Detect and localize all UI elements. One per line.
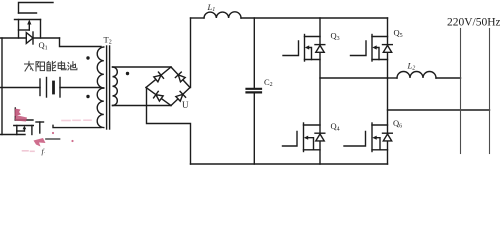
faint pink dashes	[62, 119, 91, 121]
transformer T2 secondary winding	[113, 67, 118, 106]
池	[68, 62, 77, 70]
svg-text:L2: L2	[407, 61, 416, 72]
diode bottom-right (apex to right vertex)	[175, 91, 185, 101]
gray dash mark	[46, 138, 60, 140]
body arrow	[23, 126, 27, 130]
Q2 main wire	[1, 134, 25, 136]
capacitor C2 bottom lead	[253, 94, 255, 164]
light pink dashes bottom	[23, 150, 35, 153]
svg-text:U: U	[182, 100, 189, 110]
diode top-left (apex to top vertex)	[153, 72, 163, 82]
right (drain) lead	[40, 20, 42, 39]
wire bridge mid node A (left leg to right leg)	[320, 77, 388, 79]
H-bridge left leg	[319, 18, 321, 164]
transformer T2 primary lower winding	[97, 88, 104, 128]
wire left-edge vertical bus	[1, 38, 3, 135]
polarity dot primary bottom	[86, 95, 89, 98]
transistor Q4	[283, 123, 325, 152]
wire secondary top to bridge top vertex	[113, 66, 172, 68]
transistor Q1	[15, 3, 54, 45]
svg-text:Q5: Q5	[394, 28, 403, 40]
transformer T2 primary upper winding	[97, 47, 104, 88]
inductor L1	[204, 12, 241, 18]
diode top-right (apex to top vertex)	[175, 72, 185, 82]
阳	[36, 62, 45, 71]
primary bottom lead	[53, 125, 101, 127]
能	[47, 61, 56, 70]
svg-text:L1: L1	[207, 2, 216, 13]
svg-text:Q1: Q1	[39, 40, 48, 52]
transistor Q2	[1, 108, 34, 135]
gate stub wire	[19, 3, 54, 14]
inline diode of Q1	[26, 33, 33, 44]
bridge rectifier U diamond edges	[146, 67, 190, 106]
transistor Q3	[283, 35, 325, 62]
pink watermark flag over Q2 gate	[15, 109, 28, 122]
gate stub	[14, 108, 16, 120]
T element right of Q2	[36, 122, 44, 133]
gate bar	[19, 12, 37, 14]
svg-text:Q6: Q6	[393, 118, 402, 130]
H-bridge right leg	[387, 18, 389, 164]
top rail left segment to L1	[191, 17, 205, 19]
wire Q1 to transformer top	[60, 38, 102, 47]
svg-text:Q3: Q3	[331, 31, 340, 43]
inductor L2	[397, 72, 436, 79]
wire secondary bottom to bridge bottom vertex	[113, 105, 172, 107]
battery wire left	[1, 87, 40, 89]
wire L2 to output line 1	[436, 77, 461, 79]
transistor Q5	[351, 35, 393, 62]
wire bridge negative: left vertex down, right, down to bottom rail	[147, 88, 191, 164]
left lead	[16, 126, 18, 135]
transistor Q6	[344, 123, 392, 152]
core line 2	[109, 46, 111, 129]
channel bar	[14, 125, 34, 127]
svg-text:f·: f·	[42, 147, 45, 156]
gate bar	[15, 119, 33, 121]
svg-text:T2: T2	[104, 35, 112, 46]
label solar battery (hand-drawn CJK 太阳能电池)	[25, 61, 77, 71]
capacitor C2 top lead	[253, 18, 255, 88]
svg-text:Q4: Q4	[331, 121, 340, 133]
left (source) lead	[18, 20, 20, 39]
polarity dot secondary	[126, 72, 129, 75]
output terminal line 1	[460, 29, 462, 154]
电	[58, 61, 66, 69]
capacitor C2 plates	[247, 88, 262, 90]
wire bridge positive: right vertex up to top rail corner	[190, 18, 192, 88]
bottom rail	[191, 163, 388, 165]
top rail	[241, 17, 388, 19]
battery C1 plates (solar battery)	[40, 78, 60, 98]
battery wire right to transformer center tap	[60, 87, 100, 89]
wire Q1 main horizontal	[1, 37, 60, 39]
channel bar	[15, 19, 41, 21]
pink arrow mark	[34, 132, 74, 147]
body lead with arrow	[28, 24, 30, 31]
svg-text:C2: C2	[264, 77, 273, 88]
diode bottom-left (apex to left vertex)	[154, 91, 164, 101]
output terminal line 2	[489, 29, 491, 154]
core line 1	[106, 46, 108, 129]
太	[25, 61, 34, 71]
polarity dot primary top	[86, 56, 89, 59]
wire node B to output line 2	[388, 109, 490, 111]
svg-text:220V/50Hz: 220V/50Hz	[447, 17, 500, 29]
right lead	[31, 126, 33, 135]
wire right leg to L2	[388, 77, 398, 79]
